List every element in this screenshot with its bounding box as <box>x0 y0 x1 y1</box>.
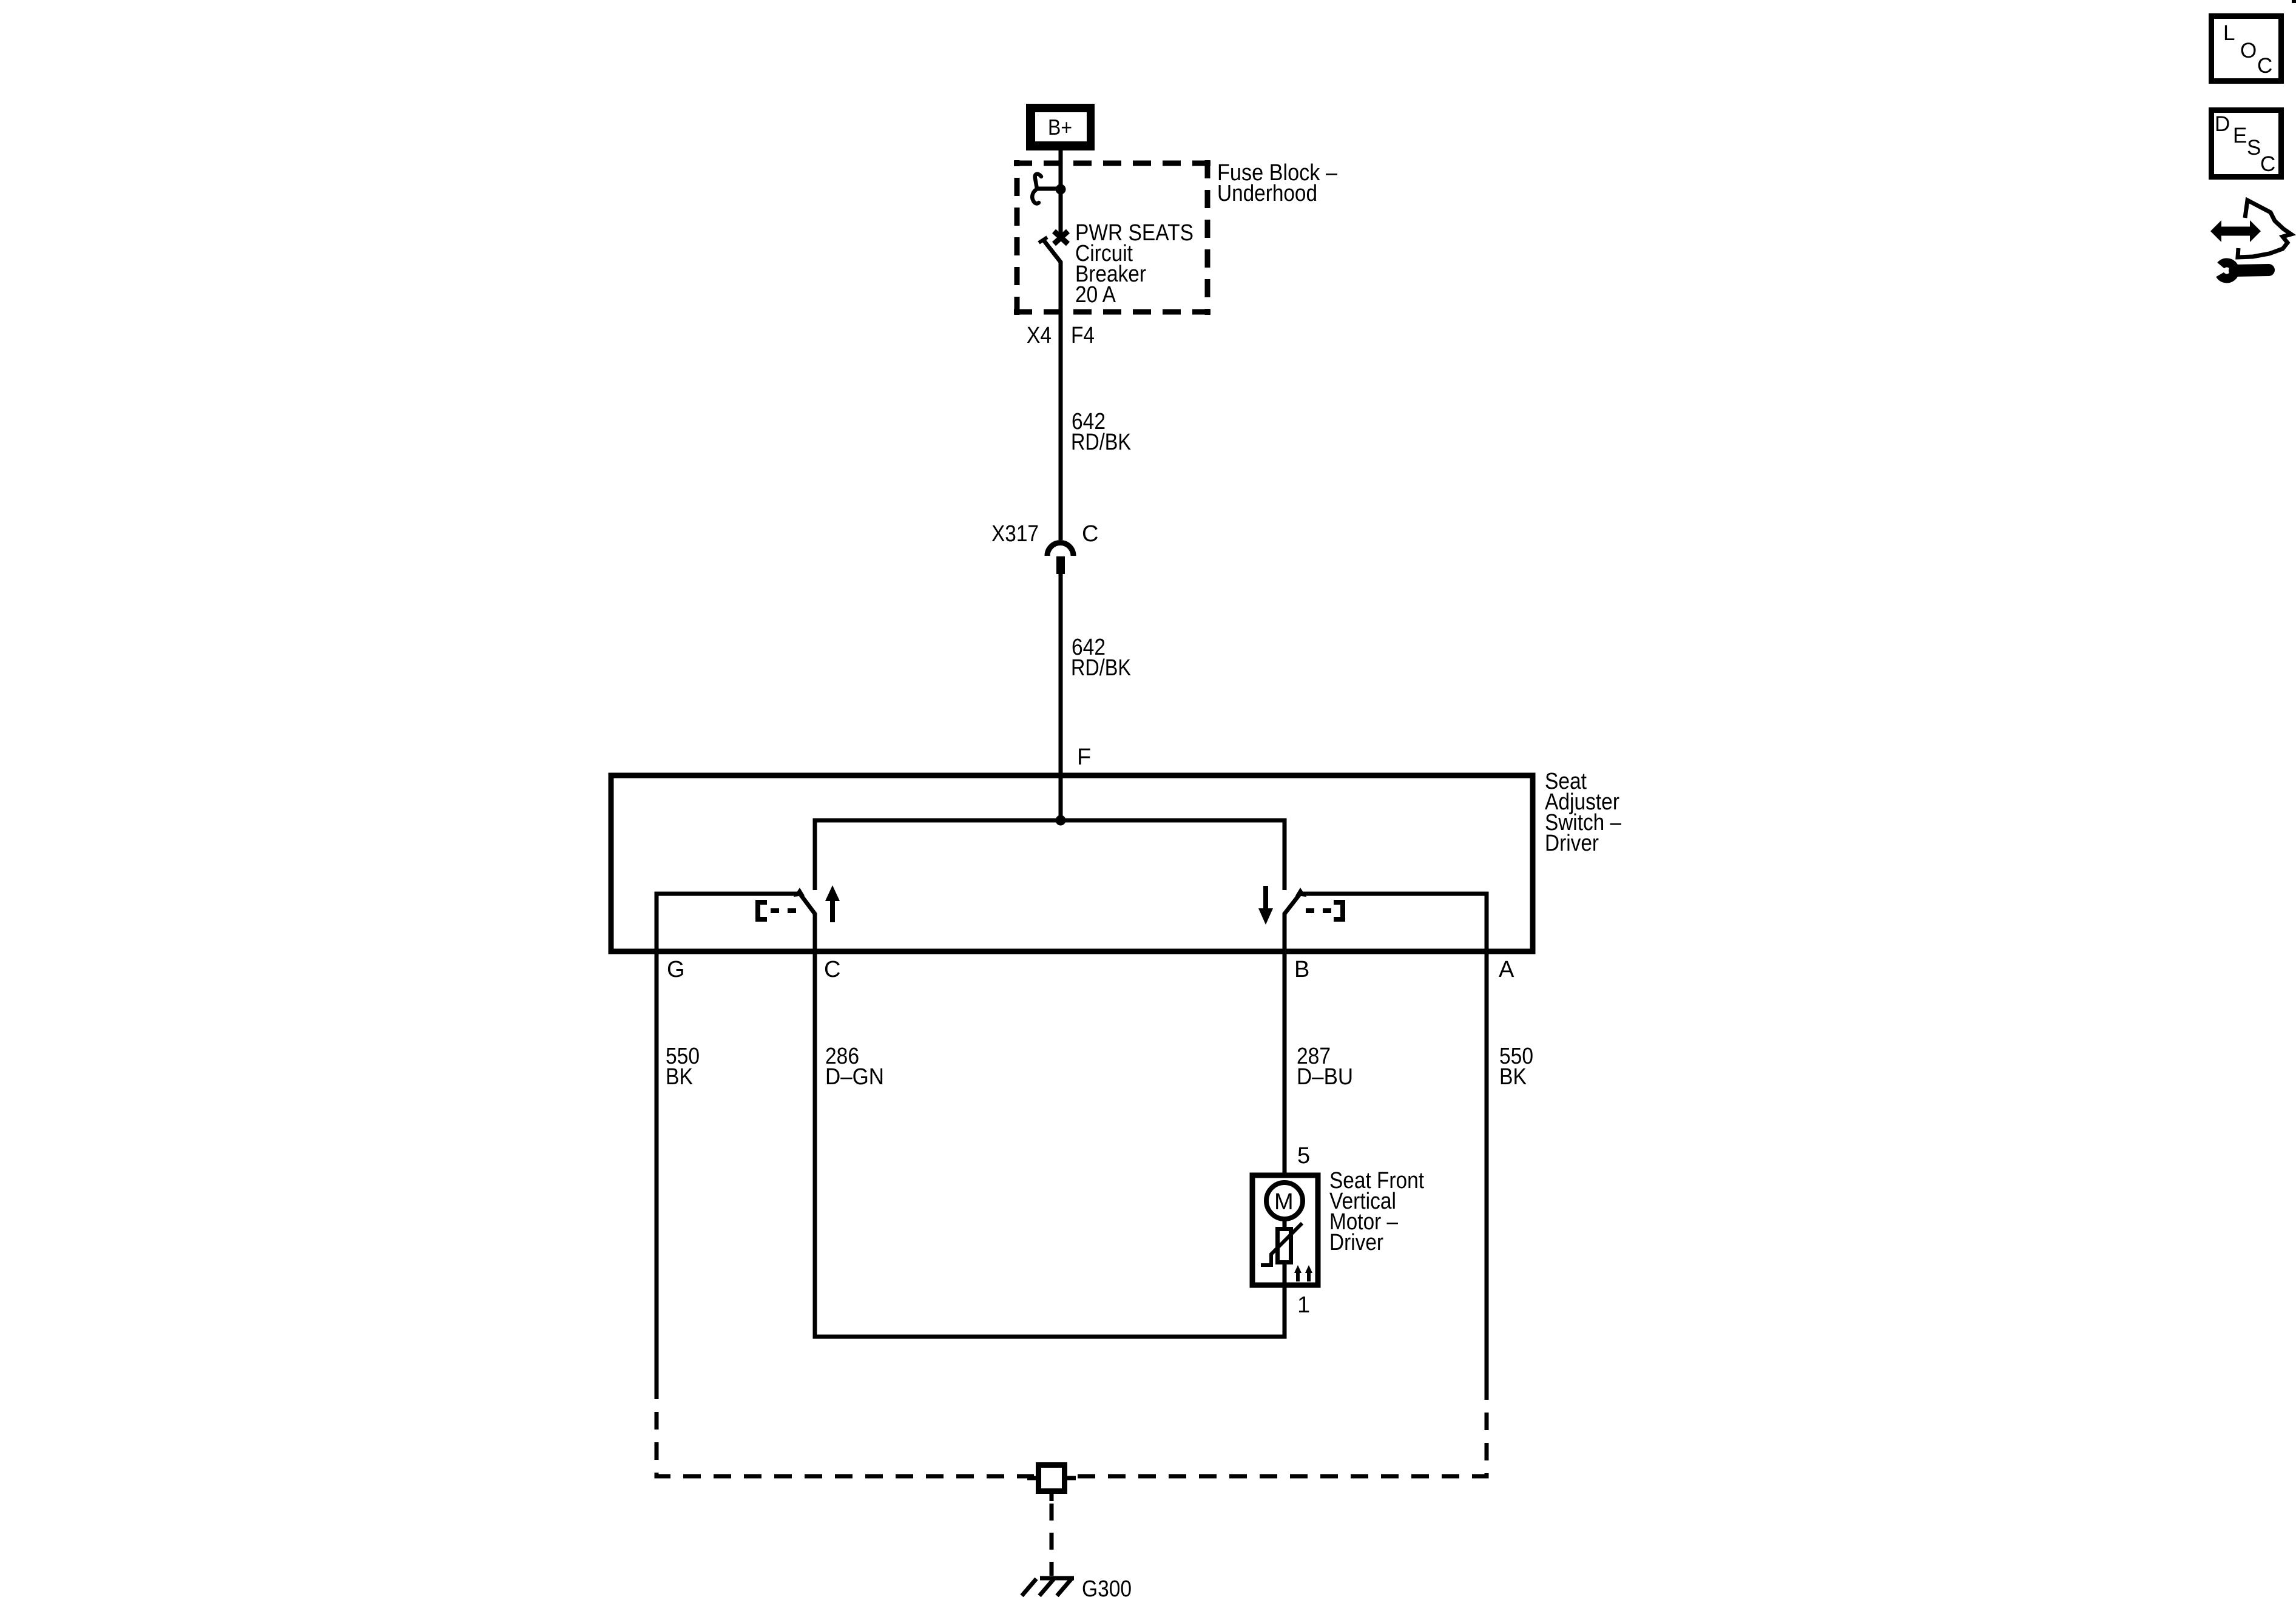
fuse block label <box>1217 160 1338 206</box>
svg-text:20 A: 20 A <box>1075 282 1116 308</box>
thermal protector diagonal <box>1261 1223 1302 1265</box>
svg-text:C: C <box>2260 152 2275 176</box>
wire from B+ to circuit breaker <box>1059 150 1063 235</box>
service wrench icon <box>2220 263 2269 279</box>
adjustable component icon: component outline <box>2238 200 2291 257</box>
wire label 287 D-BU <box>1297 1044 1353 1090</box>
circuit breaker horizontal link <box>1038 187 1061 191</box>
svg-text:G300: G300 <box>1082 1576 1132 1602</box>
svg-text:RD/BK: RD/BK <box>1071 655 1131 681</box>
svg-text:BK: BK <box>666 1064 693 1090</box>
junction node dot <box>1056 815 1066 826</box>
up switch blade and wire to pin C <box>799 892 1285 1337</box>
up arrow <box>825 885 840 922</box>
motor direction arrows <box>1294 1265 1312 1281</box>
ground symbol G300 <box>1022 1578 1074 1596</box>
wire motor circle to thermal element <box>1283 1219 1287 1227</box>
svg-text:L: L <box>2223 21 2235 45</box>
down switch pivot triangle <box>1295 888 1306 897</box>
svg-text:D: D <box>2215 112 2230 136</box>
connector X317 symbol <box>1047 543 1073 575</box>
svg-text:1: 1 <box>1297 1292 1310 1318</box>
motor circle <box>1266 1183 1303 1219</box>
circuit breaker contact X <box>1054 231 1068 244</box>
svg-text:BK: BK <box>1499 1064 1527 1090</box>
wire label 642 RD/BK (lower) <box>1071 635 1131 681</box>
circuit breaker PWR SEATS 20A: thermal curl <box>1032 174 1041 204</box>
svg-text:5: 5 <box>1297 1143 1310 1169</box>
svg-text:G: G <box>667 957 685 982</box>
circuit breaker blade tick <box>1039 237 1047 243</box>
wire thermal element to motor pin 1 <box>1283 1264 1287 1289</box>
svg-text:X317: X317 <box>991 521 1039 547</box>
DESC hotspot box <box>2212 110 2281 177</box>
wire label 642 RD/BK (upper) <box>1071 409 1131 455</box>
down switch linkage bracket <box>1334 902 1343 919</box>
wire label 550 BK (right) <box>1499 1044 1533 1090</box>
svg-text:E: E <box>2233 124 2247 147</box>
page corner artifact <box>2292 0 2296 3</box>
svg-text:D–GN: D–GN <box>825 1064 884 1090</box>
down switch common wire to A <box>1303 894 1487 1400</box>
down switch linkage dashes <box>1306 908 1331 913</box>
adjustable component icon: double arrow <box>2210 220 2261 242</box>
svg-text:C: C <box>2257 54 2272 78</box>
svg-text:B+: B+ <box>1048 115 1072 140</box>
up switch common wire to G <box>657 894 799 1399</box>
svg-text:O: O <box>2240 39 2257 62</box>
motor label <box>1329 1168 1424 1255</box>
up switch pivot triangle <box>794 888 805 897</box>
ground splice connector <box>1027 1465 1076 1502</box>
svg-text:Underhood: Underhood <box>1217 181 1317 206</box>
down switch blade and wire to pin B / motor pin 5 <box>1285 892 1302 1173</box>
thermal protector rectangle <box>1278 1229 1291 1263</box>
up switch linkage dashes <box>771 908 797 913</box>
wire from X317 to switch <box>1059 574 1063 820</box>
seat adjuster switch box <box>611 775 1533 951</box>
svg-text:D–BU: D–BU <box>1297 1064 1353 1090</box>
down arrow <box>1258 886 1273 925</box>
LOC hotspot box <box>2212 16 2281 81</box>
fuse block dashed box <box>1014 160 1210 315</box>
circuit breaker blade and wire down to X4 <box>1044 240 1061 540</box>
svg-text:C: C <box>824 957 840 982</box>
switch box label <box>1545 769 1622 856</box>
svg-text:C: C <box>1082 521 1098 547</box>
junction bar from F to both switches <box>815 820 1285 890</box>
svg-text:B: B <box>1294 957 1309 982</box>
svg-text:Driver: Driver <box>1545 831 1599 856</box>
svg-text:S: S <box>2247 136 2261 160</box>
dashed wire to ground <box>1050 1504 1054 1576</box>
svg-text:Driver: Driver <box>1329 1230 1383 1255</box>
dashed ground wire from A <box>1069 1400 1487 1476</box>
dashed ground wire from G <box>657 1399 1034 1476</box>
svg-text:RD/BK: RD/BK <box>1071 430 1131 455</box>
svg-text:X4: X4 <box>1027 323 1052 348</box>
motor M1 box <box>1252 1175 1318 1285</box>
power symbol B+ <box>1026 104 1095 150</box>
svg-text:F: F <box>1077 744 1091 770</box>
svg-text:M: M <box>1274 1189 1294 1215</box>
circuit breaker label <box>1075 220 1194 308</box>
up switch linkage bracket <box>758 902 767 919</box>
svg-text:A: A <box>1499 957 1514 982</box>
svg-text:F4: F4 <box>1071 323 1095 348</box>
wire label 286 D-GN <box>825 1044 884 1090</box>
junction dot at breaker <box>1056 184 1066 195</box>
wire label 550 BK (left) <box>666 1044 700 1090</box>
